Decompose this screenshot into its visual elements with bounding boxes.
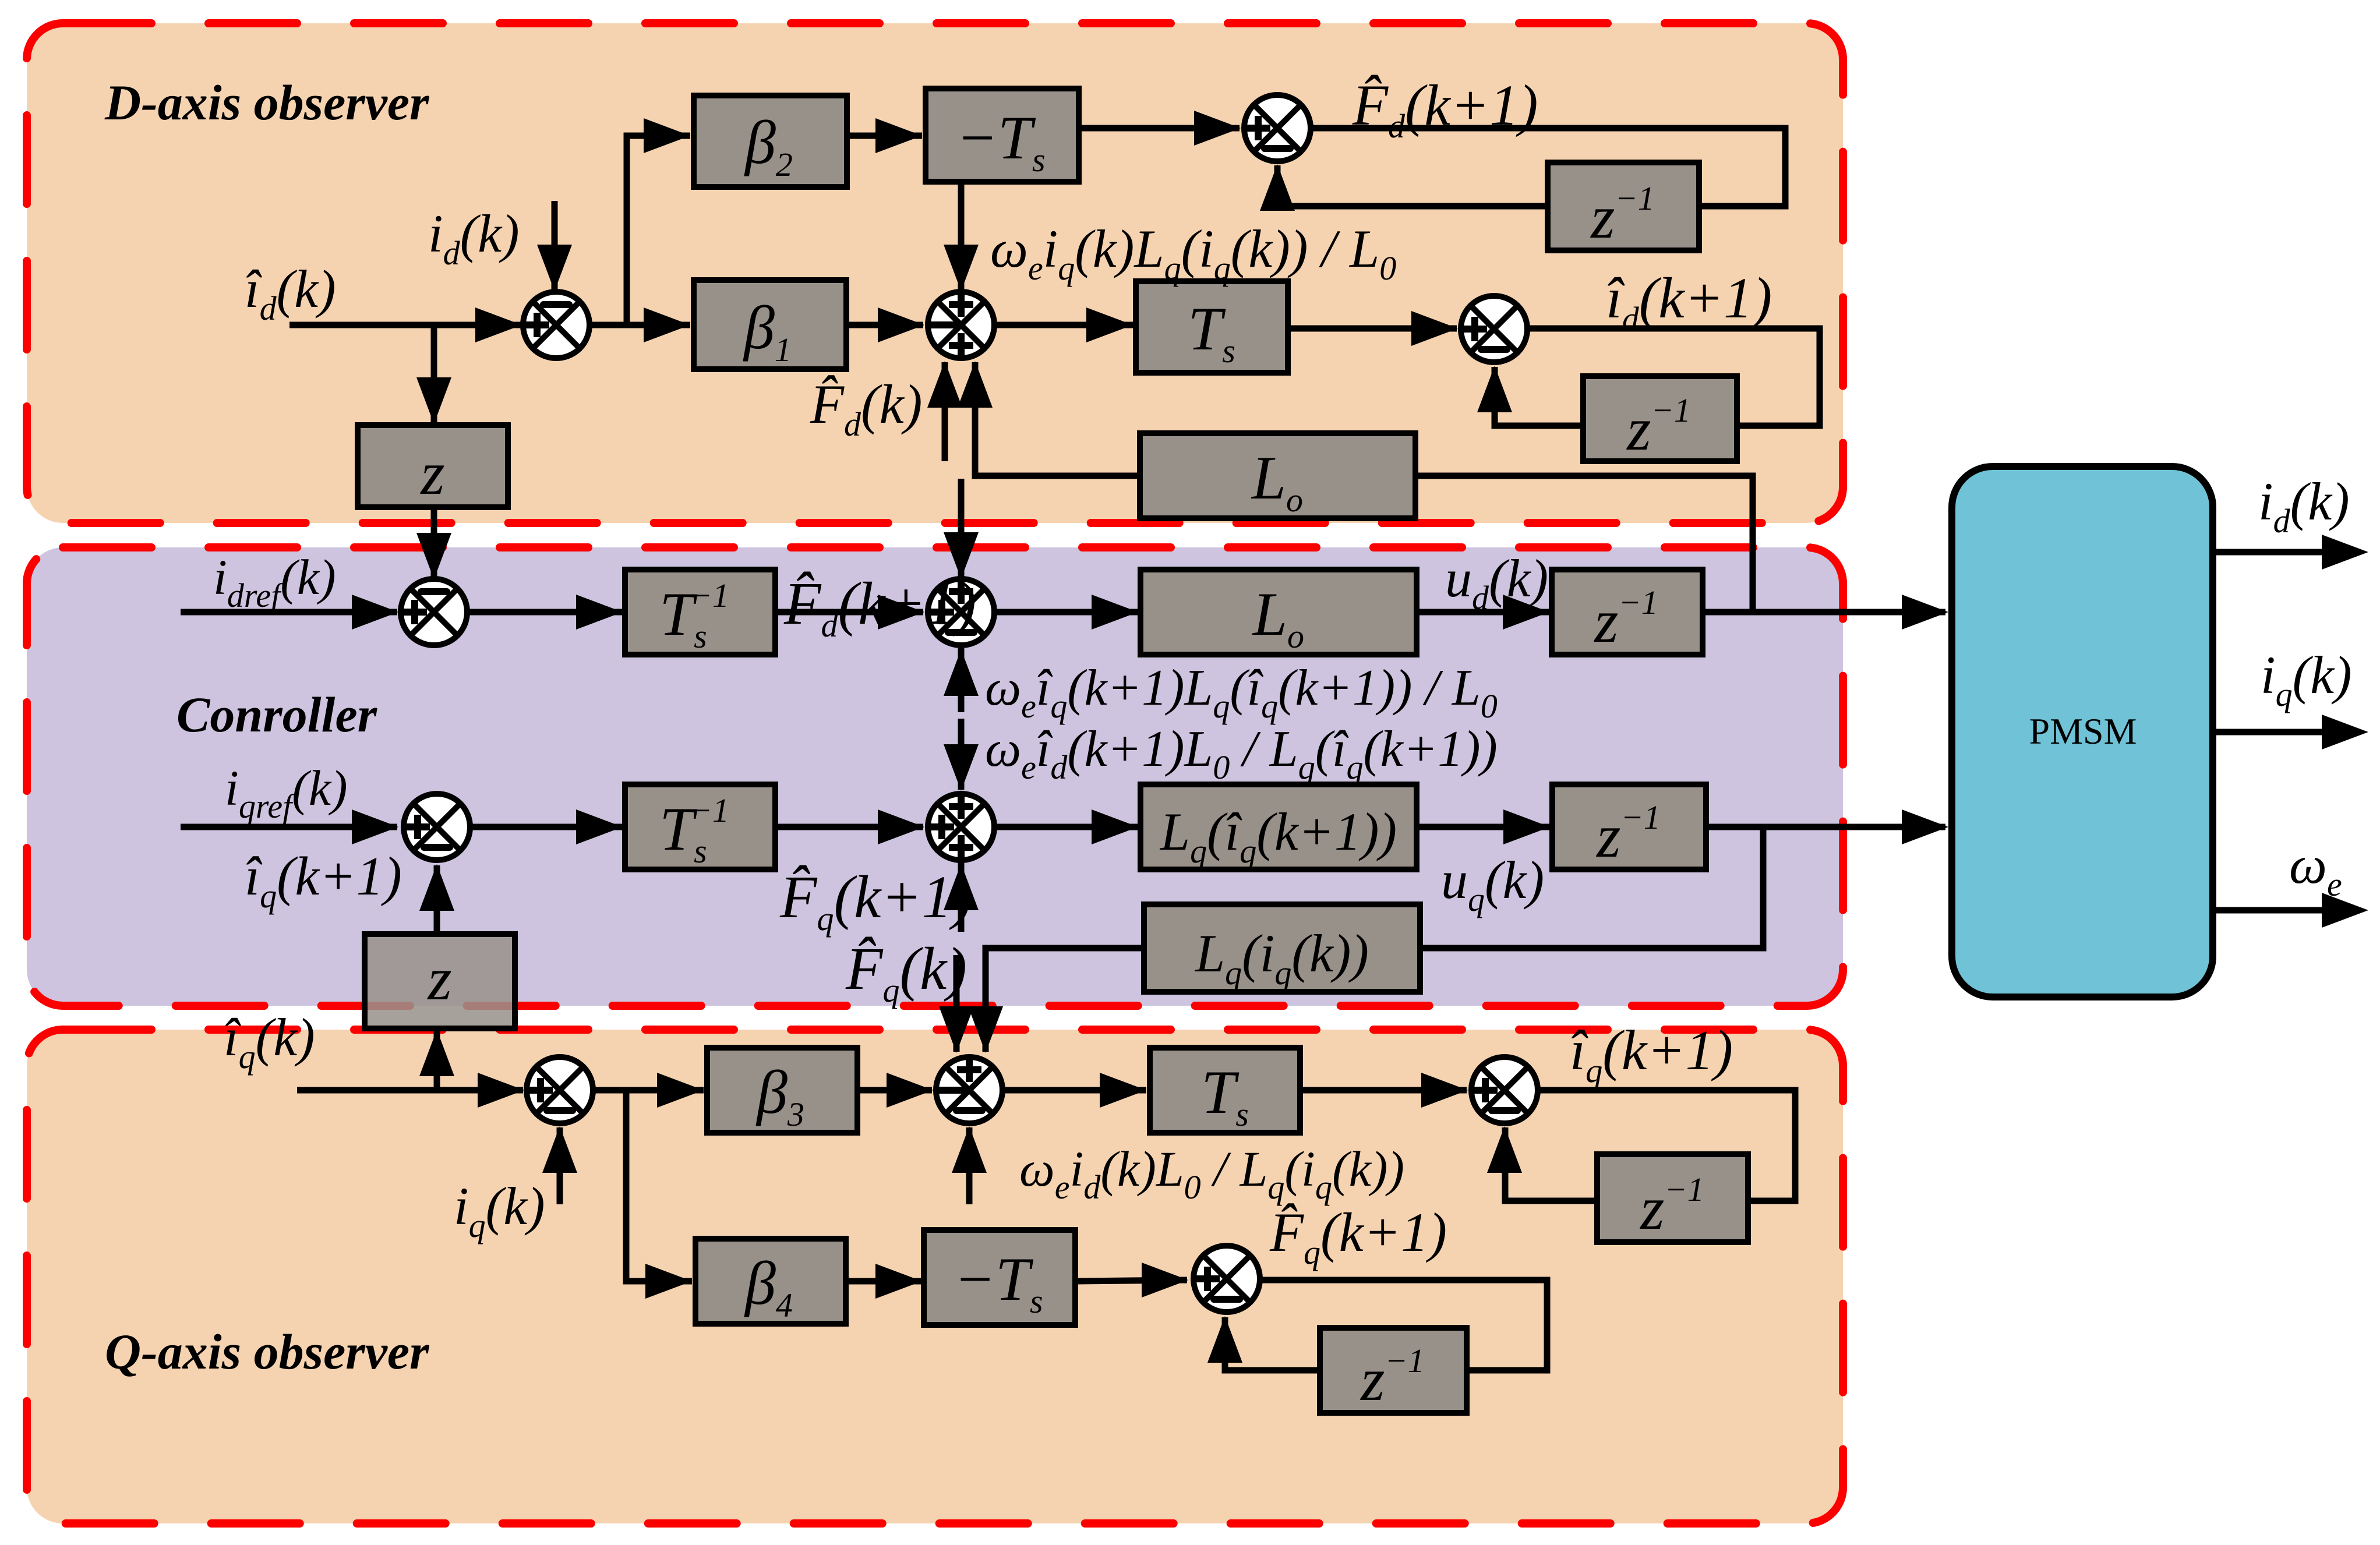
- wire -Ts to S1: [1079, 125, 1240, 132]
- block Lo b: [1140, 570, 1417, 655]
- wire PMSM out i_q: [2213, 729, 2327, 736]
- block z-1 e: [1597, 1154, 1748, 1242]
- block z a: [358, 425, 508, 507]
- block beta1: [694, 280, 846, 369]
- wire z-1f feedback to S12: [1225, 1317, 1320, 1370]
- wire branch down to beta4: [626, 1090, 692, 1281]
- container Controller: [27, 547, 1843, 1006]
- svg-text:Conroller: Conroller: [176, 687, 378, 743]
- summing junction S3 (d observer sum): [928, 292, 994, 358]
- wire Lq to z-1d: [1417, 824, 1550, 830]
- block Ts-1 b: [625, 784, 775, 869]
- wire S7 to Ts-1b: [469, 824, 623, 830]
- summing junction S9 (i_q error): [527, 1057, 593, 1123]
- summing junction S4 (i_d_hat update): [1461, 296, 1527, 362]
- summing junction S12 (F_q feedback): [1193, 1246, 1260, 1312]
- wire S2 to beta1: [589, 322, 690, 328]
- wire Ts-1b to S8: [775, 824, 923, 830]
- wire z-a down to S5: [431, 507, 437, 578]
- svg-text:Q-axis observer: Q-axis observer: [105, 1324, 430, 1380]
- wire beta2 to -Ts: [847, 133, 922, 139]
- summing junction S10 (q observer sum): [936, 1057, 1002, 1123]
- wire omega stub into S10: [966, 1127, 973, 1204]
- block z-1 a: [1548, 162, 1699, 250]
- block beta4: [695, 1239, 846, 1324]
- wire z-1b feedback to S4: [1495, 367, 1583, 426]
- wire S12 out to z-1f: [1258, 1280, 1547, 1370]
- wire -Ts-b to S12: [1075, 1280, 1187, 1281]
- wire i_d_hat(k) input: [289, 322, 521, 328]
- svg-text:ud(k): ud(k): [1445, 549, 1548, 617]
- block beta2: [694, 96, 847, 187]
- container Q-axis observer: [27, 1030, 1843, 1523]
- svg-text:F̂d(k): F̂d(k): [810, 373, 922, 443]
- block -Ts (q): [924, 1230, 1075, 1325]
- wire beta4 to -Ts-b: [846, 1278, 922, 1285]
- summing junction S5 (i_dref error): [401, 579, 467, 645]
- block z-1 f: [1320, 1328, 1467, 1413]
- summing junction S8 (u_q sum): [928, 794, 994, 860]
- summing junction S7 (i_qref error): [404, 794, 470, 860]
- wire F_q(k) stub to S10: [954, 955, 960, 1052]
- svg-text:F̂q(k): F̂q(k): [845, 935, 967, 1009]
- wire u_q branch to Lq(iq(k)): [1420, 827, 1763, 948]
- wire i_q_hat branch into z-b: [434, 1031, 440, 1090]
- svg-text:ωeiq(k)Lq(iq(k)) / L0: ωeiq(k)Lq(iq(k)) / L0: [990, 219, 1396, 287]
- svg-text:F̂q(k+1): F̂q(k+1): [779, 864, 972, 938]
- wire PMSM out omega_e: [2213, 907, 2327, 914]
- wire u_d branch to Lo-a: [1417, 476, 1753, 612]
- block -Ts (d): [926, 89, 1079, 182]
- wire z-1e feedback to S11: [1505, 1127, 1597, 1201]
- block PMSM: [1952, 466, 2213, 997]
- summing junction S1 (F_d feedback): [1244, 95, 1311, 161]
- wire beta3 to S10: [857, 1087, 932, 1094]
- wire i_q_hat(k) input: [297, 1087, 523, 1094]
- block Lo a: [1140, 433, 1415, 518]
- wire S9 to beta3: [592, 1087, 704, 1094]
- svg-text:−Ts: −Ts: [954, 1245, 1043, 1320]
- wire Lo-b to z-1c: [1417, 609, 1549, 616]
- wire F_d(k) stub into S3: [942, 362, 948, 461]
- svg-text:iq(k): iq(k): [2261, 645, 2352, 713]
- container D-axis observer: [27, 23, 1843, 523]
- svg-text:z: z: [419, 439, 444, 507]
- svg-text:PMSM: PMSM: [2029, 710, 2137, 752]
- wire i_dref input: [181, 609, 397, 616]
- wire S6 to Lo-b: [994, 609, 1138, 616]
- svg-text:F̂q(k+1): F̂q(k+1): [1269, 1201, 1447, 1271]
- wire omega stub into S6: [958, 648, 965, 712]
- wire u_d to PMSM: [1703, 609, 1945, 616]
- wire beta1 to S3: [846, 322, 923, 328]
- arrowheads: [644, 118, 690, 153]
- wire S5 to Ts-1a: [469, 609, 623, 616]
- block z-1 b: [1583, 376, 1737, 461]
- block z-1 d: [1552, 784, 1706, 869]
- wire F_d(k+1) down to S6: [958, 479, 965, 578]
- svg-text:id(k): id(k): [2258, 472, 2350, 540]
- svg-text:z: z: [426, 945, 451, 1013]
- svg-text:F̂d(k+1): F̂d(k+1): [1352, 73, 1538, 145]
- block z b: [365, 934, 515, 1028]
- wire z-1a feedback to S1: [1277, 165, 1548, 206]
- summing junction S2 (i_d error): [523, 292, 589, 358]
- wire S3 to Ts: [994, 322, 1133, 328]
- svg-text:iq(k): iq(k): [454, 1176, 545, 1245]
- wire S1 out to z-1a: [1310, 128, 1785, 206]
- svg-text:ωe: ωe: [2289, 835, 2342, 903]
- svg-text:îd(k): îd(k): [245, 259, 336, 327]
- wire i_d(k) into S2: [552, 201, 558, 291]
- block Lq(iq_hat(k+1)): [1140, 784, 1417, 869]
- block Ts-1 a: [625, 570, 775, 655]
- wire u_q to PMSM: [1706, 824, 1945, 830]
- block Ts (q): [1150, 1048, 1300, 1133]
- block Lq(iq(k)): [1144, 904, 1420, 992]
- svg-text:−Ts: −Ts: [956, 104, 1045, 179]
- wire PMSM out i_d: [2213, 549, 2327, 556]
- svg-text:îq(k): îq(k): [224, 1007, 315, 1076]
- summing junction S11 (i_q_hat update): [1471, 1057, 1538, 1123]
- wire S4 out to z-1b: [1530, 328, 1820, 426]
- wire Lo-a to S3: [975, 362, 1140, 476]
- wire i_q(k) stub into S9: [557, 1127, 563, 1204]
- block beta3: [707, 1048, 857, 1133]
- block Ts (d): [1136, 281, 1288, 373]
- block z-1 c: [1552, 570, 1703, 655]
- wire Ts to S4: [1288, 326, 1457, 332]
- wire S10 to Ts-b: [1002, 1087, 1146, 1094]
- svg-text:F̂d(k+1): F̂d(k+1): [783, 570, 976, 644]
- wire Ts-b to S11: [1300, 1087, 1467, 1094]
- wire F_q(k+1) stub into S8: [958, 862, 965, 932]
- wire branch up to beta2: [627, 136, 690, 325]
- wire Lq(iq(k)) out to S10: [986, 948, 1144, 1052]
- wire omega stub into S8: [958, 719, 965, 790]
- summing junction S6 (u_d sum): [928, 579, 994, 645]
- svg-text:uq(k): uq(k): [1441, 850, 1544, 918]
- svg-text:ωeid(k)L0 / Lq(iq(k)): ωeid(k)L0 / Lq(iq(k)): [1019, 1141, 1404, 1206]
- wire z-b up to S7: [434, 865, 440, 934]
- svg-text:D-axis observer: D-axis observer: [104, 75, 430, 130]
- wire branch to z: [431, 325, 437, 423]
- wire -Ts down to S3: [958, 182, 965, 291]
- wire Ts-1a to S6: [775, 609, 923, 616]
- wire S11 out to z-1e: [1540, 1090, 1795, 1201]
- svg-text:id(k): id(k): [428, 204, 520, 272]
- wire i_qref input: [181, 824, 397, 830]
- wire S8 to Lq block: [994, 824, 1138, 830]
